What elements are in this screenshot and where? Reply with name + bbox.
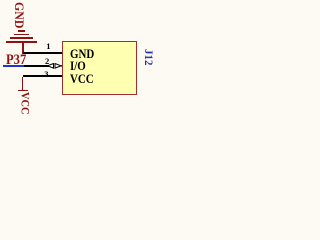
wire net P37 (blue segment) [3,65,24,67]
wire pin 2 (black segment) [24,65,49,67]
wire pin 1 (GND to J12 pin 1) [23,52,63,54]
power port VCC stem [22,77,24,90]
pin name VCC [70,72,94,85]
pin name I/O [70,59,86,72]
ground symbol bar 1 (top, smallest) [18,30,25,32]
ground symbol bar 3 [10,37,33,39]
pin number 3 [44,70,48,79]
power port VCC bar [18,90,28,92]
ground symbol bar 2 [14,34,29,36]
pin name GND [70,47,94,60]
pin number 2 [45,57,49,66]
pin 2 I/O bidirectional arrow [47,63,62,69]
connector body J12 [62,41,137,95]
designator J12 [141,49,156,65]
wire pin 3 [23,75,63,77]
ground symbol bar 4 (widest) [6,41,37,43]
power port VCC label [17,92,32,114]
ground symbol stem [22,43,24,54]
pin number 1 [46,42,50,51]
power port GND label [11,2,26,28]
net label P37 [6,53,26,67]
